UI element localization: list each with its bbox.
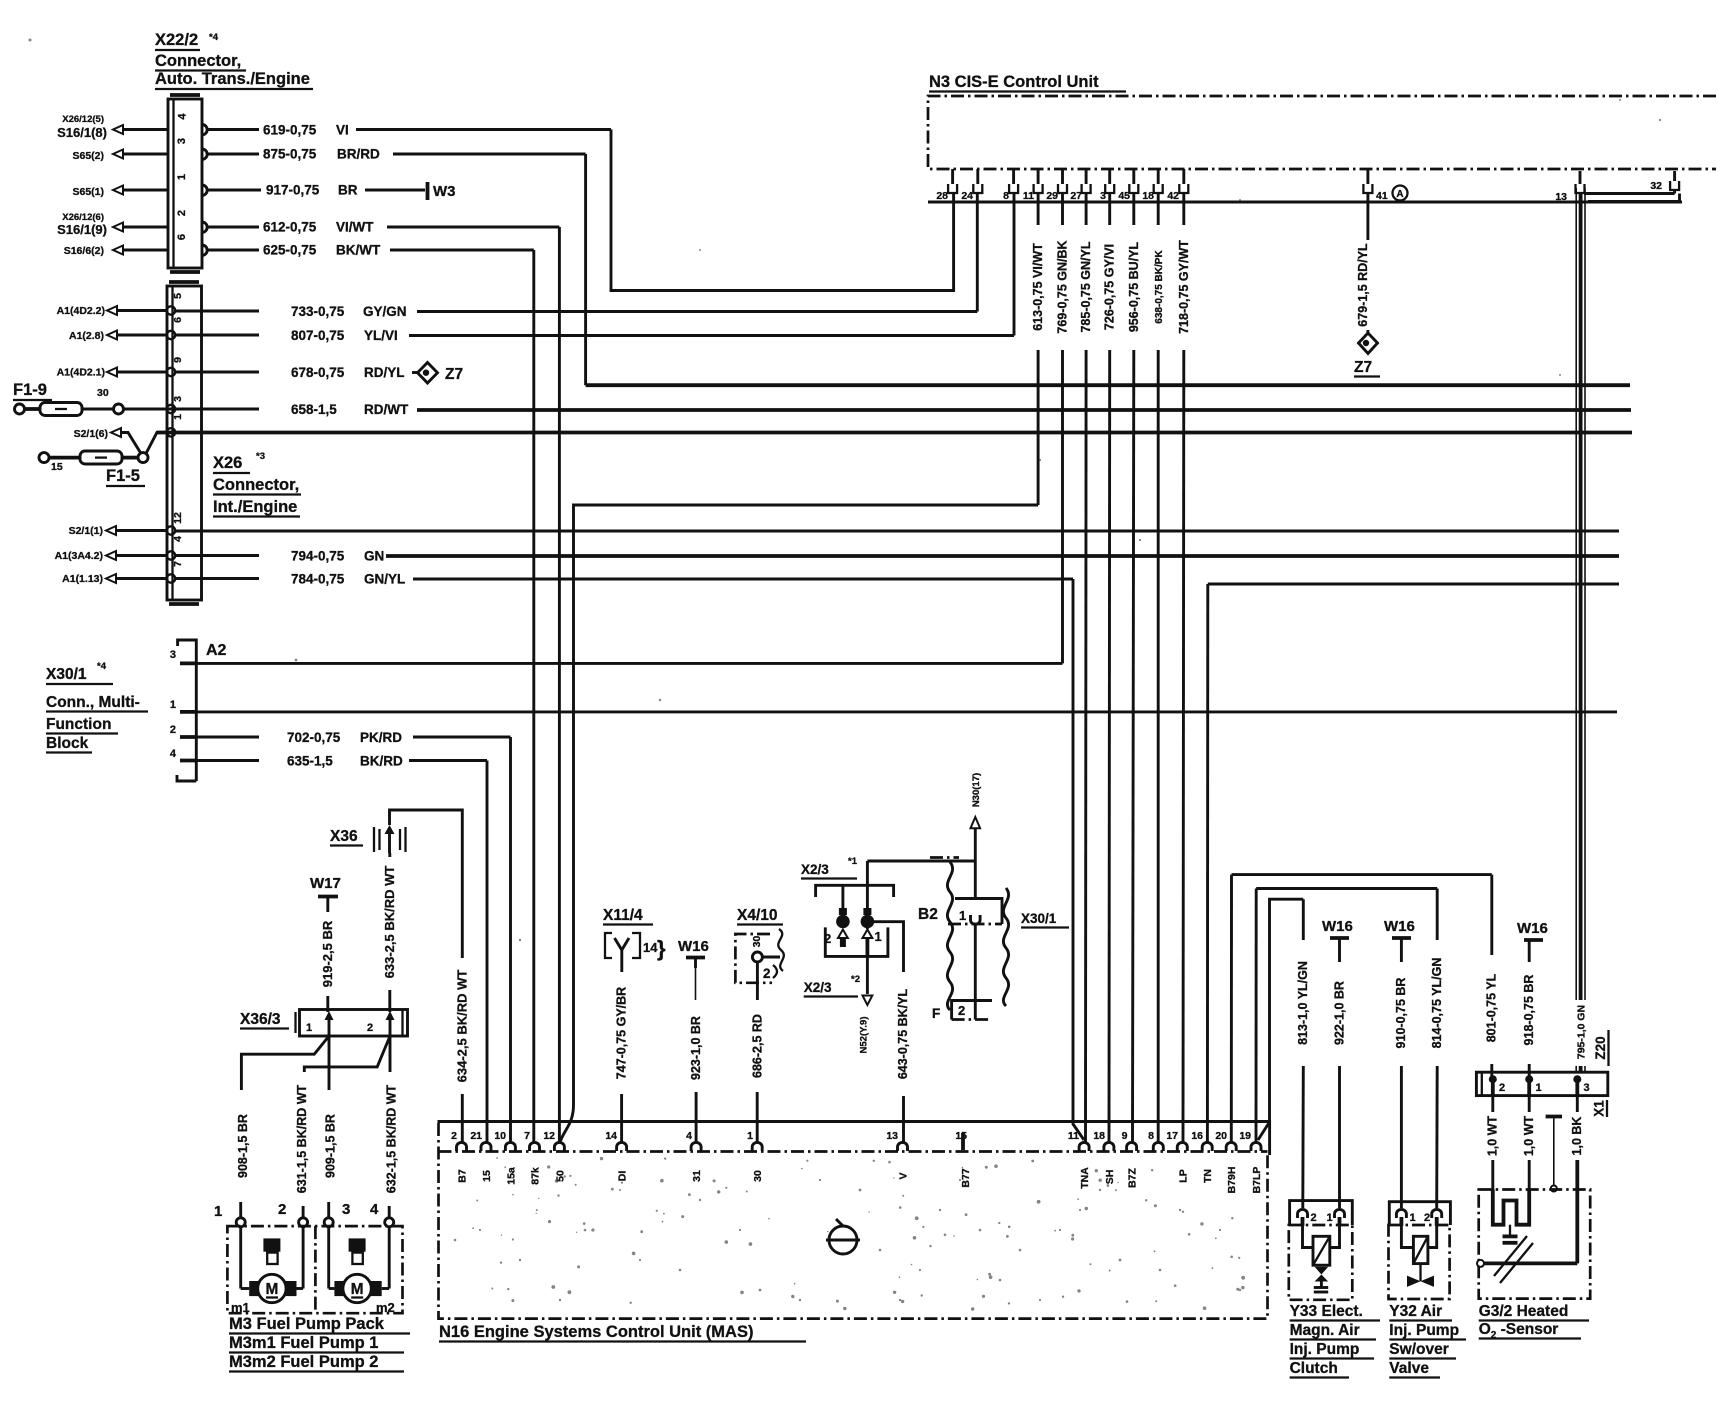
svg-text:G3/2 Heated: G3/2 Heated: [1479, 1303, 1569, 1320]
X22/2 pin 6 (row 625): [202, 245, 207, 255]
svg-text:4: 4: [172, 536, 184, 542]
svg-text:42: 42: [1167, 190, 1179, 202]
N3 pin 28: [936, 169, 957, 202]
svg-text:625-0,75: 625-0,75: [263, 243, 317, 258]
svg-text:8: 8: [1003, 190, 1009, 202]
ground W16 (Y32): [1384, 918, 1415, 962]
reference arrow N30(17): [971, 773, 982, 898]
svg-text:917-0,75: 917-0,75: [266, 183, 320, 198]
svg-text:Connector,: Connector,: [155, 52, 241, 70]
svg-text:Connector,: Connector,: [213, 476, 299, 494]
svg-text:2: 2: [170, 724, 176, 736]
svg-text:1: 1: [1536, 1082, 1542, 1094]
svg-text:686-2,5 RD: 686-2,5 RD: [750, 1014, 764, 1078]
svg-text:N3 CIS-E Control Unit: N3 CIS-E Control Unit: [929, 73, 1099, 91]
wire 635-1,5 BK/RD to N16 pin 21: [196, 754, 487, 1143]
arrow A1(2.8): [107, 331, 117, 340]
G3/2 heater element: [1493, 1190, 1529, 1225]
wire 613-0,75 VI/WT N3 pin11 to N16 pin 12: [561, 193, 1046, 1141]
svg-text:TNA: TNA: [1079, 1167, 1091, 1189]
connector X1 label: [1592, 1100, 1608, 1117]
svg-text:Valve: Valve: [1389, 1360, 1429, 1377]
wire arrow to X26: [117, 309, 167, 312]
wire 634-2,5 BK/RD WT from X36 to N16 pin 2: [390, 810, 470, 1142]
wire N30 stem to X2/3: [867, 860, 975, 863]
svg-text:1,0 WT: 1,0 WT: [1486, 1116, 1500, 1157]
svg-text:638-0,75 BK/PK: 638-0,75 BK/PK: [1154, 250, 1165, 324]
X22/2 pin 3 (row 875): [202, 149, 207, 159]
svg-text:1: 1: [1410, 1212, 1416, 1224]
svg-text:V: V: [898, 1172, 910, 1179]
X36/3 pin 2 (arrow): [386, 1011, 395, 1036]
svg-text:3: 3: [176, 138, 188, 144]
svg-text:*1: *1: [848, 856, 858, 867]
svg-text:45: 45: [1118, 190, 1130, 202]
connector X30/1 (pin 1 box): [948, 899, 1069, 928]
svg-text:3: 3: [1584, 1082, 1590, 1094]
svg-text:909-1,5 BR: 909-1,5 BR: [324, 1114, 338, 1178]
svg-text:S65(2): S65(2): [72, 150, 104, 162]
wire through X2/3 down to N52(Y.9) arrow: [859, 861, 873, 1053]
svg-text:A1(2.8): A1(2.8): [69, 330, 104, 342]
svg-text:Magn. Air: Magn. Air: [1290, 1322, 1360, 1339]
wire 612-0,75 VI/WT to N16 pin 12: [207, 220, 559, 1143]
arrow A1(4D2.2): [107, 306, 117, 315]
wire 747-0,75 GY/BR X11/4 to N16 pin 14: [615, 950, 629, 1142]
svg-text:A2: A2: [206, 642, 227, 659]
wire 813-1,0 YL/GN to Y33 pin 2 (diagonal into N16 pin 19): [1258, 899, 1310, 1208]
X22/2 pin 1 (row 917): [202, 185, 207, 195]
arrow S16/1(8): [113, 125, 123, 134]
wire arrow to pin 3: [123, 153, 168, 156]
connector X4/10: [735, 907, 783, 983]
svg-text:W3: W3: [433, 183, 456, 200]
svg-text:658-1,5: 658-1,5: [291, 402, 337, 417]
svg-text:14: 14: [605, 1130, 617, 1142]
arrow S65(1): [113, 186, 123, 195]
wire 679-1,5 RD/YL N3 pin41 to node Z7: [1356, 193, 1370, 334]
wire arrow to X26: [116, 577, 167, 580]
svg-text:Z20: Z20: [1593, 1036, 1608, 1059]
arrow S2/1(1): [106, 526, 116, 535]
wire 678-0,75 RD/YL to node Z7: [175, 365, 419, 380]
svg-text:813-1,0 YL/GN: 813-1,0 YL/GN: [1296, 961, 1310, 1045]
svg-text:10: 10: [494, 1130, 506, 1142]
wire arrow to X26: [117, 371, 167, 374]
N3 pin 3: [1100, 169, 1114, 202]
connector X36/3: [240, 1010, 408, 1037]
wire 1,0 WT Z20 pin1 to G3/2 heater: [1522, 1096, 1536, 1190]
wire 919-2,5 BR from W17 to X36/3 pin 1: [320, 920, 335, 1012]
wire arrow to X26: [116, 554, 167, 557]
svg-text:A1(3A4.2): A1(3A4.2): [55, 550, 103, 562]
svg-text:S2/1(6): S2/1(6): [74, 428, 108, 440]
arrow S16/6(2): [113, 246, 123, 255]
svg-text:28: 28: [936, 190, 948, 202]
svg-text:Block: Block: [46, 735, 89, 752]
svg-text:M: M: [265, 1281, 278, 1298]
ground W16 (Y33): [1322, 918, 1353, 962]
svg-text:12: 12: [543, 1130, 555, 1142]
svg-text:24: 24: [961, 190, 973, 202]
wire 702-0,75 PK/RD to N16 pin 10: [196, 730, 510, 1142]
svg-text:14: 14: [643, 940, 658, 955]
wire arrow to pin 1: [123, 189, 168, 192]
N16 pin sockets: [457, 1142, 1262, 1151]
svg-text:1: 1: [959, 908, 966, 923]
svg-text:m2: m2: [376, 1300, 395, 1315]
wire 633-2,5 BK/RD WT from X36 to X36/3 pin 2: [382, 853, 397, 1012]
svg-text:1: 1: [747, 1130, 753, 1142]
sensor G3/2 box: [1479, 1190, 1591, 1299]
wire 769-0,75 GN/BK N3 pin29 to A2 pin 3: [1056, 193, 1070, 663]
wire 910-0,75 BR W16 to Y32 pin 1: [1394, 978, 1408, 1208]
svg-text:N30(17): N30(17): [971, 773, 982, 807]
svg-text:814-0,75 YL/GN: 814-0,75 YL/GN: [1430, 958, 1444, 1049]
svg-text:633-2,5 BK/RD WT: 633-2,5 BK/RD WT: [382, 866, 397, 979]
svg-text:875-0,75: 875-0,75: [263, 147, 317, 162]
svg-text:613-0,75 VI/WT: 613-0,75 VI/WT: [1031, 243, 1045, 331]
svg-text:785-0,75 GN/YL: 785-0,75 GN/YL: [1079, 241, 1093, 332]
svg-text:11: 11: [1068, 1130, 1079, 1142]
svg-text:GN: GN: [364, 549, 384, 564]
svg-text:X2/3: X2/3: [801, 862, 829, 877]
wire S2/1(6) diagonal to fuse F1-5 junction: [121, 433, 141, 454]
fuel pump motor M3m2: [329, 1227, 390, 1303]
arrow A1(4D2.1): [107, 368, 117, 377]
svg-text:612-0,75: 612-0,75: [263, 220, 317, 235]
wire 638-0,75 BK/PK N3 pin18 to N16 pin 8: [1154, 193, 1165, 1142]
svg-text:5: 5: [172, 293, 184, 299]
wire 807-0,75 YL/VI to N3 pin 8: [175, 193, 1014, 343]
svg-text:6: 6: [172, 317, 184, 323]
svg-text:B7: B7: [457, 1169, 469, 1183]
svg-text:910-0,75 BR: 910-0,75 BR: [1394, 978, 1408, 1049]
shielded cable to O2 sensor (3 lines): [1576, 188, 1588, 1072]
fuse F1-5: [39, 451, 148, 486]
connector X30/1 title: [46, 661, 148, 753]
svg-text:B7Z: B7Z: [1127, 1167, 1139, 1187]
connector X11/4: [603, 907, 666, 961]
svg-text:X22/2: X22/2: [155, 31, 198, 49]
svg-text:718-0,75 GY/WT: 718-0,75 GY/WT: [1177, 240, 1191, 334]
fuel pump terminal 2: [278, 1201, 308, 1227]
svg-text:M: M: [351, 1281, 364, 1298]
ground W17: [310, 875, 341, 912]
svg-text:922-1,0 BR: 922-1,0 BR: [1332, 981, 1346, 1045]
svg-text:A: A: [1396, 189, 1403, 200]
svg-text:3: 3: [170, 649, 176, 661]
svg-text:1: 1: [170, 699, 176, 711]
svg-text:801-0,75 YL: 801-0,75 YL: [1484, 973, 1498, 1042]
svg-text:13: 13: [1555, 191, 1567, 203]
wire 631-1,5 BK/RD WT X36/3 pin2 branch to fuel pump m1: [295, 1036, 390, 1218]
N16 pin 15 stub: [961, 1133, 965, 1150]
wire A2 pin1 long row: [196, 710, 1617, 713]
svg-text:A1(1.13): A1(1.13): [62, 573, 103, 585]
svg-text:643-0,75 BK/YL: 643-0,75 BK/YL: [896, 988, 910, 1079]
svg-text:918-0,75 BR: 918-0,75 BR: [1522, 975, 1536, 1046]
node S16/1(8) label: [57, 114, 107, 140]
ground W16 (Z20): [1517, 920, 1548, 962]
fuse F1-9: [13, 381, 167, 416]
svg-text:678-0,75: 678-0,75: [291, 365, 345, 380]
svg-text:908-1,5 BR: 908-1,5 BR: [236, 1114, 250, 1178]
N3 pin 8: [1003, 169, 1018, 202]
connector Z20: [1476, 1072, 1607, 1095]
wire 632-1,5 BK/RD WT X36/3 pin2 to fuel pump m2: [385, 1036, 399, 1218]
N3 pin 41: [1363, 169, 1387, 202]
svg-text:7: 7: [524, 1130, 530, 1142]
svg-text:21: 21: [470, 1130, 482, 1142]
svg-text:Z7: Z7: [445, 366, 463, 383]
shield drain bar and lead: [1546, 1117, 1562, 1192]
N3 terminal A symbol: [1393, 186, 1408, 201]
svg-text:2: 2: [1311, 1212, 1317, 1224]
svg-text:9: 9: [1122, 1130, 1128, 1142]
wire 922-1,0 BR W16 to Y33 pin 1: [1332, 981, 1346, 1208]
N3 pin 45: [1118, 169, 1138, 202]
svg-text:W16: W16: [678, 938, 709, 955]
svg-text:W16: W16: [1517, 920, 1548, 937]
Y32 labels: [1389, 1303, 1466, 1378]
svg-text:*3: *3: [256, 451, 265, 462]
svg-text:S65(1): S65(1): [72, 186, 104, 198]
svg-text:F1-5: F1-5: [106, 467, 140, 485]
svg-text:S16/6(2): S16/6(2): [64, 245, 104, 257]
wire S2/1(6) long row: [157, 431, 1632, 435]
svg-text:YL/VI: YL/VI: [364, 328, 398, 343]
wire 643-0,75 BK/YL X2/3 pin1 to N16 pin 13: [867, 922, 910, 1142]
svg-text:15: 15: [51, 461, 63, 473]
svg-text:VI/WT: VI/WT: [336, 220, 374, 235]
svg-text:9: 9: [172, 357, 184, 363]
svg-text:2: 2: [278, 1201, 286, 1218]
svg-text:M3 Fuel Pump Pack: M3 Fuel Pump Pack: [229, 1315, 385, 1333]
svg-text:B7LP: B7LP: [1251, 1167, 1263, 1194]
svg-text:747-0,75 GY/BR: 747-0,75 GY/BR: [615, 987, 629, 1079]
svg-text:LP: LP: [1177, 1169, 1189, 1182]
svg-text:30: 30: [97, 387, 109, 399]
wire row 584 (N16 pin16 off-page right): [1207, 584, 1619, 1142]
svg-text:87k: 87k: [530, 1167, 542, 1185]
scan noise speckles inside N16: [479, 1179, 1241, 1301]
svg-text:F: F: [932, 1006, 940, 1021]
connector X2/3 upper bracket: [816, 885, 894, 897]
wire 718-0,75 GY/WT N3 pin42 to N16 pin 17: [1177, 193, 1191, 1142]
wire 814-0,75 YL/GN N16 pin19 to Y32 pin 2: [1256, 889, 1444, 1209]
wire 784-0,75 GN/YL to N16 pin 11: [175, 572, 1084, 1141]
N16 internal symbol (circle): [826, 1219, 860, 1254]
svg-text:29: 29: [1046, 190, 1058, 202]
svg-text:2: 2: [1424, 1212, 1430, 1224]
svg-text:3: 3: [342, 1201, 350, 1218]
ground W16 (mid): [678, 938, 709, 1000]
svg-text:X26: X26: [213, 454, 242, 472]
X22/2 pin 4 (row 619): [202, 125, 207, 135]
svg-text:}: }: [657, 936, 666, 961]
svg-text:B77: B77: [960, 1168, 972, 1187]
svg-text:*2: *2: [851, 974, 860, 985]
svg-text:2: 2: [451, 1130, 457, 1142]
wire 658-1,5 RD/WT long row: [124, 402, 1632, 417]
wire 909-1,5 BR X36/3 pin1 to fuel pump m2: [324, 1036, 338, 1218]
arrow S2/1(6): [111, 428, 121, 437]
N3 pin 32: [1650, 171, 1679, 192]
svg-text:7: 7: [172, 561, 184, 567]
svg-text:923-1,0 BR: 923-1,0 BR: [689, 1016, 703, 1080]
wire arrow to pin 6: [123, 249, 168, 252]
svg-text:2: 2: [1499, 1082, 1505, 1094]
node Z20 label: [1593, 1030, 1609, 1066]
svg-text:VI: VI: [336, 123, 349, 138]
wire 908-1,5 BR X36/3 pin1 branch to fuel pump m1: [236, 1036, 329, 1218]
svg-text:15: 15: [481, 1170, 493, 1182]
svg-text:Conn., Multi-: Conn., Multi-: [46, 694, 140, 711]
arrow A1(1.13): [106, 574, 116, 583]
wire 1,0 BK Z20 pin3 to G3/2 sensor: [1570, 1096, 1584, 1264]
svg-text:4: 4: [170, 748, 177, 760]
wire A2 pin3 row to N3 pin 29 (wire 769): [196, 662, 1062, 665]
svg-text:807-0,75: 807-0,75: [291, 328, 345, 343]
svg-text:X2/3: X2/3: [804, 980, 832, 995]
svg-text:GN/YL: GN/YL: [364, 572, 405, 587]
svg-text:BK/RD: BK/RD: [360, 754, 403, 769]
svg-text:BR/RD: BR/RD: [337, 147, 380, 162]
wire arrow to X26: [117, 334, 167, 337]
svg-text:Auto. Trans./Engine: Auto. Trans./Engine: [155, 70, 310, 88]
fuel pump terminal 1: [214, 1203, 245, 1227]
svg-text:3: 3: [172, 396, 184, 402]
svg-text:635-1,5: 635-1,5: [287, 754, 333, 769]
svg-text:919-2,5 BR: 919-2,5 BR: [320, 920, 335, 987]
svg-text:784-0,75: 784-0,75: [291, 572, 345, 587]
svg-text:30: 30: [751, 936, 763, 948]
svg-text:32: 32: [1650, 180, 1662, 192]
svg-text:679-1,5 RD/YL: 679-1,5 RD/YL: [1356, 243, 1370, 327]
fuel pump pack M3 box: [227, 1226, 402, 1315]
svg-text:31: 31: [691, 1170, 703, 1182]
G3/2 sensor element: [1477, 1225, 1577, 1283]
N3 pin 24: [961, 169, 982, 202]
svg-text:Sw/over: Sw/over: [1389, 1341, 1448, 1358]
svg-text:M3m1 Fuel Pump 1: M3m1 Fuel Pump 1: [229, 1334, 378, 1352]
node Z7 (right diamond): [1354, 333, 1380, 377]
svg-text:702-0,75: 702-0,75: [287, 730, 341, 745]
svg-text:17: 17: [1166, 1130, 1178, 1142]
connector X36: [330, 825, 406, 853]
N16 internal terminal labels: [457, 1167, 1264, 1194]
svg-text:41: 41: [1376, 190, 1388, 202]
svg-text:M3m2 Fuel Pump 2: M3m2 Fuel Pump 2: [229, 1353, 378, 1371]
connector block A2 bracket: [170, 640, 227, 781]
svg-text:16: 16: [1191, 1130, 1203, 1142]
fuel pump labels: [229, 1315, 410, 1372]
svg-text:27: 27: [1070, 190, 1082, 202]
svg-text:18: 18: [1093, 1130, 1105, 1142]
node Z7 (diamond): [418, 363, 464, 384]
wire 918-0,75 BR W16 to Z20 pin 1: [1522, 975, 1536, 1076]
svg-text:4: 4: [370, 1201, 379, 1218]
svg-text:3: 3: [1100, 190, 1106, 202]
svg-text:PK/RD: PK/RD: [360, 730, 402, 745]
svg-text:B2: B2: [918, 906, 938, 923]
svg-text:1,0 BK: 1,0 BK: [1570, 1117, 1584, 1156]
connector X2/3 *1 title: [801, 856, 858, 879]
svg-text:*4: *4: [97, 661, 107, 672]
svg-text:30: 30: [752, 1170, 764, 1182]
svg-text:769-0,75 GN/BK: 769-0,75 GN/BK: [1056, 240, 1070, 333]
N3 pin 11: [1023, 169, 1043, 202]
svg-text:X30/1: X30/1: [1021, 911, 1057, 926]
svg-text:Int./Engine: Int./Engine: [213, 498, 297, 516]
svg-text:GY/GN: GY/GN: [363, 304, 407, 319]
svg-text:Inj. Pump: Inj. Pump: [1290, 1341, 1360, 1358]
svg-text:X26/12(5): X26/12(5): [62, 114, 104, 125]
N3 pin 13: [1555, 171, 1584, 203]
wire 956-0,75 BU/YL N3 pin45 to N16 pin 9: [1127, 193, 1141, 1142]
svg-text:4: 4: [686, 1130, 692, 1142]
svg-text:Function: Function: [46, 716, 111, 733]
arrow A1(3A4.2): [106, 551, 116, 560]
svg-text:N52(Y.9): N52(Y.9): [859, 1017, 870, 1054]
wire S2/1(1) long row: [175, 530, 1619, 533]
svg-text:S16/1(8): S16/1(8): [57, 125, 107, 140]
svg-text:2: 2: [763, 966, 771, 981]
svg-text:20: 20: [1215, 1130, 1227, 1142]
svg-text:Y32 Air: Y32 Air: [1389, 1303, 1442, 1320]
svg-text:B79H: B79H: [1226, 1167, 1238, 1194]
wire 686-2,5 RD X4/10 to N16 pin 1: [750, 962, 764, 1142]
svg-text:RD/WT: RD/WT: [364, 402, 409, 417]
svg-text:4: 4: [177, 113, 189, 120]
N3 pin 18: [1142, 169, 1162, 202]
svg-text:S16/1(9): S16/1(9): [57, 222, 107, 237]
svg-text:X36/3: X36/3: [240, 1011, 281, 1028]
control unit N3 title: [929, 73, 1126, 92]
N3 pin 42: [1167, 169, 1188, 202]
svg-text:631-1,5 BK/RD WT: 631-1,5 BK/RD WT: [295, 1084, 309, 1193]
svg-text:2: 2: [367, 1022, 373, 1034]
svg-text:12: 12: [172, 512, 184, 524]
fuel pump terminal 3: [324, 1201, 350, 1227]
wire 923-1,0 BR W16 to N16 pin 4: [689, 1016, 703, 1142]
wire 619-0,75 VI to N3 pin 28: [207, 123, 954, 291]
svg-text:11: 11: [1023, 190, 1034, 202]
wire arrow to pin 2: [123, 226, 168, 229]
connector X2/3 lower bracket: [825, 927, 888, 956]
wire 726-0,75 GY/VI N3 pin3 to N16 pin 18: [1103, 193, 1117, 1142]
fuel pump motor M3m1: [241, 1227, 303, 1303]
wire N3 pin 32 loop to shielded cable: [1584, 190, 1680, 202]
X36/3 pin 1 (arrow): [325, 1011, 334, 1036]
wire 794-0,75 GN long row: [175, 549, 1619, 564]
component B2 (torn outline): [918, 858, 1009, 1011]
wire F1-5 diagonal up to row S2/1(6): [146, 432, 167, 453]
X2/3 contact pin 1: [861, 908, 882, 944]
svg-text:W16: W16: [1384, 918, 1415, 935]
svg-text:Y33 Elect.: Y33 Elect.: [1290, 1303, 1363, 1320]
svg-text:1: 1: [1327, 1212, 1333, 1224]
connector X26 body: [167, 282, 202, 604]
svg-text:Z7: Z7: [1354, 359, 1372, 376]
arrow S65(2): [113, 150, 123, 159]
svg-text:15a: 15a: [505, 1167, 517, 1185]
N3 pin 27: [1070, 169, 1090, 202]
svg-text:S2/1(1): S2/1(1): [69, 525, 103, 537]
wire 785-0,75 GN/YL N3 pin27 to N16 pin 11: [1079, 193, 1093, 1142]
svg-text:19: 19: [1239, 1130, 1251, 1142]
